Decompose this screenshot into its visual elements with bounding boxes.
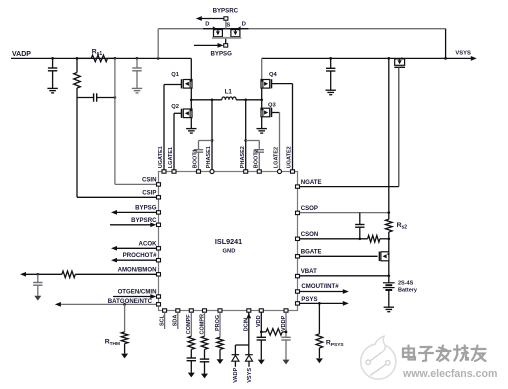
capacitor C3 vsys [326,58,335,90]
pin BOOT2 [254,149,262,173]
svg-text:GND: GND [223,249,236,255]
ground under C3 [326,90,336,95]
wire BGATE [300,255,378,257]
ground under battery [384,307,394,312]
svg-text:LGATE2: LGATE2 [274,147,280,168]
wire CSIP sense line [77,98,159,198]
junction PHASE1 [211,98,214,141]
wire ACOK arrow [111,246,156,251]
svg-text:PHASE2: PHASE2 [240,146,246,168]
pin BYPSG [135,204,160,214]
capacitor VDDP [281,337,290,359]
junction VSYS sense [387,57,390,60]
pin LGATE1 [168,147,176,173]
svg-text:PROCHOT#: PROCHOT# [123,252,157,259]
ground under Q2 [186,129,196,134]
pin CSON [296,231,319,241]
pin PHASE2 [240,146,248,173]
wire VDDP stem [285,312,287,337]
wire Q4 gate UGATE2 [272,84,293,172]
junction phase left [190,98,193,101]
svg-text:BOOT1: BOOT1 [193,149,199,168]
svg-text:ACOK: ACOK [139,240,158,247]
wire BYPSG out arrow [111,210,156,215]
ground arrow COMPF [188,373,195,378]
ground under C2 [132,88,142,93]
arrow VSYS output [471,56,477,61]
wire Q1 gate UGATE1 [164,85,182,172]
wire Q3 source to gnd [261,117,263,129]
capacitor COMPR [200,349,209,374]
junction PHASE2 [244,98,247,141]
wire CSON [300,238,389,240]
ground under C1 [47,88,57,93]
junction Rs1 right node [114,57,117,60]
ground under Q3 [257,129,267,134]
wire DCIN line [235,312,251,354]
pin LGATE2 [274,147,282,174]
label ISL9241 [215,237,242,246]
wire Q2 source to gnd [190,118,192,129]
wire NGATE gate line [398,67,400,186]
wire CMOUT arrow [300,289,349,294]
ground arrow VDD [258,360,265,365]
wire RPSYS to gnd [318,348,320,358]
label VSYS rotated [247,368,253,383]
resistor RTHM [121,332,128,344]
wire COMPR stem [204,312,206,336]
junction CSON rail [387,237,390,240]
wire RTHM stem [124,304,126,332]
wire BOOT1 line [199,141,213,172]
wire battery rail upper [388,58,390,219]
pin SCL [159,309,166,326]
resistor VDD-VDDP [261,329,286,336]
node BYPSG connector [224,44,228,47]
wire PROG to gnd [219,349,221,359]
label Q2 [171,104,179,110]
svg-text:L1: L1 [225,89,233,96]
pin NGATE [296,179,322,188]
label Q3 [268,102,277,108]
svg-text:D: D [205,21,209,27]
wire BYPSRC arrow [196,16,224,21]
transistor NGATE FET [394,57,405,67]
wire BYPSRC in arrow [110,222,156,227]
wire bypass riser [157,29,159,59]
wire PSYS arrow [300,301,349,306]
junction VDD res [260,331,263,334]
svg-text:Battery: Battery [398,288,418,294]
ground arrow COMPR [201,374,208,379]
label Rs1 [92,49,103,58]
wire Q3 gate LGATE2 [272,113,280,172]
svg-text:Q4: Q4 [269,72,278,78]
resistor Rs1 sense [77,55,115,62]
resistor CSON series [368,236,380,243]
pin PROCHOT# [123,252,161,262]
svg-text:CSON: CSON [301,231,319,238]
resistor RPSYS [316,334,323,348]
op-amp U1 ISL9241 body [159,172,298,311]
watermark elecfans logo [361,336,396,379]
wire Q1 source to phase [190,88,192,100]
wire VSYS rail [262,57,472,59]
wire bypass top rail [158,28,445,30]
label VADP rotated [233,367,239,382]
resistor divider on CSIP [74,58,81,97]
resistor Rs2 [386,219,393,232]
svg-text:CSIN: CSIN [142,177,157,184]
battery 2S-4S [383,283,395,290]
capacitor VDD [257,337,266,359]
pin CMOUT/INT# [296,283,340,293]
svg-text:BYPSRC: BYPSRC [131,217,157,224]
ground arrow PROG [217,359,224,364]
capacitor C2 input [132,58,141,88]
label L1 [225,89,233,96]
pin BGATE [296,248,322,258]
svg-text:D: D [242,21,246,27]
pin BOOT1 [193,149,201,173]
pin COMPR [199,309,206,335]
pin OTGEN/CMIN [118,289,161,299]
pin UGATE1 [158,146,166,173]
wire PHASE1 line [211,100,213,172]
resistor COMPF [188,336,195,349]
svg-text:NGATE: NGATE [301,179,322,186]
transistor Q2 [182,109,193,118]
capacitor AMON filter [33,274,42,296]
wire BOOT2 line [246,141,260,172]
ground arrow VDDP [283,360,290,365]
resistor COMPR [201,336,208,349]
svg-text:Q1: Q1 [171,72,180,78]
label BYPSG [211,50,233,57]
wire RTHM to gnd [124,344,126,354]
wire VDD stem [260,312,262,337]
wire PROG stem [219,312,221,337]
wire Q2 drain [190,100,192,109]
svg-text:PSYS: PSYS [301,296,317,303]
wire VADP rail [11,57,191,59]
svg-text:BYPSG: BYPSG [135,204,157,211]
junction at divider resistor [76,57,79,60]
svg-text:BYPSG: BYPSG [211,50,233,57]
junction at C2 [136,57,139,60]
junction Cf to CSIN line [114,96,117,99]
svg-text:Q2: Q2 [171,104,179,110]
wire VBAT [300,275,389,277]
transistor bypass FET A [213,26,223,37]
label BYPSRC [213,8,239,15]
capacitor CSOP-CSON filter [355,213,364,239]
wire SCL stub [164,312,166,329]
pin DCIN [244,309,251,332]
label GND [223,249,236,255]
svg-text:S: S [226,23,230,29]
junction VSYS cap [329,57,332,60]
pin UGATE2 [287,146,295,173]
pin PSYS [296,296,318,305]
pin CSOP [296,205,318,215]
pin AMON/BMON [118,266,161,276]
wire SDA stub [177,312,179,329]
pin CSIP [142,190,160,200]
wire Q2 gate LGATE1 [174,113,182,171]
svg-text:VSYS: VSYS [455,50,471,56]
wire S tap to BYPSRC [225,20,227,28]
pin PHASE1 [206,146,214,173]
wire rail corner to VSYS [445,29,447,59]
transistor BGATE FET [379,252,389,261]
svg-text:VBAT: VBAT [301,268,317,275]
pin BATGONE/NTC [108,298,161,306]
junction RTHM [123,303,126,306]
pin VDD [256,309,263,327]
wire AMON line [20,272,156,277]
junction AMON cap [36,273,39,276]
svg-text:VADP: VADP [12,51,31,58]
wire PROCHOT arrow [111,258,156,263]
svg-text:www.elecfans.com: www.elecfans.com [402,368,497,380]
inductor L1 [222,97,236,100]
pin VBAT [296,268,318,278]
capacitor COMPF [187,349,196,372]
capacitor Cboot2 [255,150,264,153]
wire OTGEN arrow [113,294,156,299]
wire NGATE [300,186,399,188]
diode DCIN-VADP [232,355,240,367]
junction on VADP rail at C1 [51,57,54,60]
pin BYPSRC [131,217,160,227]
wire Q1 drain [190,58,192,79]
bypass FET common source bar [212,37,241,39]
transistor Q1 [182,79,193,88]
pin VDDP [281,309,288,331]
wire phase line [191,99,261,101]
wire battery rail mid [388,232,390,283]
svg-text:UGATE2: UGATE2 [287,146,293,168]
transistor Q4 [261,79,272,88]
node VADP label [12,51,31,58]
wire Q4 drain [261,58,263,79]
svg-text:CSOP: CSOP [301,205,318,212]
label RPSYS [326,339,345,347]
label D left [205,21,209,27]
junction bypass riser [157,57,160,60]
label Rs2 [397,222,408,231]
junction VDDP res [285,331,288,334]
junction RPSYS [318,302,321,305]
junction phase right [260,98,263,101]
ground arrow under AMON cap [34,296,41,301]
label D right [242,21,246,27]
svg-text:AMON/BMON: AMON/BMON [118,266,157,273]
diode DCIN-VSYS [245,355,253,367]
pin PROG [215,309,222,331]
wire RPSYS stem [318,303,320,333]
svg-text:BGATE: BGATE [301,248,322,255]
svg-text:ISL9241: ISL9241 [215,237,242,246]
transistor bypass FET B [231,26,241,37]
svg-text:UGATE1: UGATE1 [158,146,164,168]
label VSYS [455,50,471,56]
wire COMPF stem [190,312,192,336]
svg-text:BOOT2: BOOT2 [254,149,260,168]
wire CSOP [300,212,389,214]
label Q1 [171,72,180,78]
junction CSON cap [358,237,361,240]
wire Q3 drain [261,100,263,108]
pin ACOK [139,240,161,250]
svg-text:BYPSRC: BYPSRC [213,8,239,15]
svg-text:VADP: VADP [233,367,239,382]
svg-text:PHASE1: PHASE1 [206,146,212,168]
svg-text:LGATE1: LGATE1 [168,147,174,168]
capacitor Cboot1 [194,150,203,153]
svg-text:CMOUT/INT#: CMOUT/INT# [301,283,339,290]
transistor Q3 [261,108,272,117]
junction CSOP rail [387,211,390,214]
svg-text:VSYS: VSYS [247,368,253,383]
capacitor C1 input [48,58,57,88]
node BYPSRC connector [224,17,228,20]
wire BYPSG stem [225,39,227,44]
ground arrow under RPSYS [316,358,323,363]
label RTHM [105,338,120,346]
wire PHASE2 line [245,100,247,172]
svg-text:2S-4S: 2S-4S [398,281,414,287]
wire BATGONE line [55,302,156,307]
svg-text:CSIP: CSIP [142,190,156,197]
wire BYPSG arrow [194,43,224,48]
resistor PROG [217,337,224,349]
pin COMPF [186,309,193,334]
junction VBAT rail [387,274,390,277]
junction rail down [444,57,447,60]
label battery [398,281,418,294]
wire battery to gnd [388,290,390,307]
wire Q4 source to phase [261,88,263,100]
ground arrow under RTHM [121,354,128,359]
pin CSIN [142,177,161,186]
pin SDA [173,309,180,327]
resistor AMON series [62,271,75,278]
capacitor Cf series filter [77,93,115,101]
watermark url text [402,368,497,380]
label Q4 [269,72,278,78]
wire CSIN sense line [115,58,159,184]
svg-text:Q3: Q3 [268,102,277,108]
label S [226,23,230,29]
watermark chinese characters [403,346,486,362]
